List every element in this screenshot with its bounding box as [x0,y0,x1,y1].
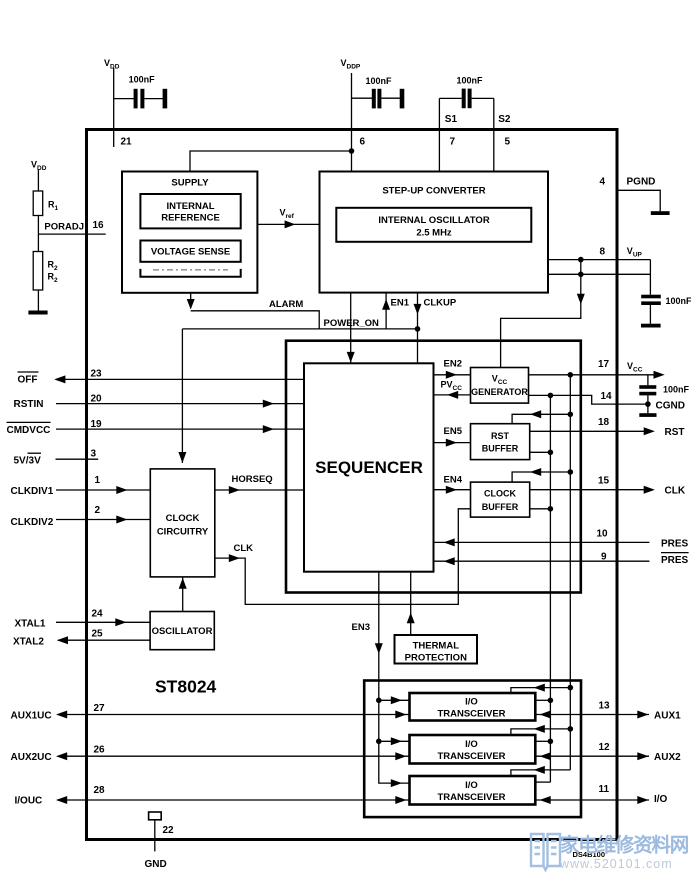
label CGND [656,400,685,411]
wire OFF output [54,375,304,383]
svg-text:28: 28 [94,785,106,796]
svg-text:RST: RST [491,431,510,441]
wire POWER_ON down to clock circuitry [178,329,186,463]
node junction rail B / RST feed [568,412,574,418]
block sequencer outer frame [286,341,581,593]
label VUP [627,246,643,259]
wire Vref supply to step-up [257,208,319,229]
label S2 [498,114,511,125]
svg-text:27: 27 [94,703,106,714]
node junction VCC rail B [568,372,574,378]
label CLKDIV2 [11,517,54,528]
svg-text:OSCILLATOR: OSCILLATOR [152,626,213,637]
svg-text:CMDVCC: CMDVCC [7,425,51,436]
svg-text:XTAL1: XTAL1 [15,618,46,629]
wire XTAL1 input [56,618,150,626]
pin 7 [450,137,456,148]
pin 17 [598,359,610,370]
wire oscillator to clock circuitry [179,577,187,612]
wire rail B vertical [569,375,571,770]
wire CLKDIV2 input [56,516,150,524]
ground PGND [651,211,670,215]
svg-text:INTERNAL: INTERNAL [166,201,214,212]
wire thermal protection to sequencer [407,572,415,635]
label I/OUC [15,796,43,807]
svg-text:PRES: PRES [661,538,689,549]
block VOLTAGE SENSE [140,241,240,262]
block I/O TRANSCEIVER 3 [410,776,536,805]
svg-text:EN1: EN1 [391,297,410,308]
svg-text:12: 12 [599,742,611,753]
wire EN4 [434,486,471,494]
wire EN2 [434,371,471,379]
pin 8 [600,247,606,258]
label 5V/3V (3V active low) [14,453,42,466]
pin 1 [95,475,101,486]
svg-text:PROTECTION: PROTECTION [405,653,467,664]
node junction rail A / T2 [548,739,554,745]
wire RSTIN input [56,400,304,408]
svg-text:23: 23 [91,369,103,380]
svg-text:8: 8 [600,247,606,258]
wire pin 4 PGND [617,190,660,211]
wire junction to step-up converter top [351,151,353,172]
svg-text:CLKDIV2: CLKDIV2 [11,517,54,528]
node junction rail A / T1 [548,698,554,704]
label CLKUP [424,297,457,308]
svg-text:INTERNAL OSCILLATOR: INTERNAL OSCILLATOR [378,215,490,226]
pin 12 [599,742,611,753]
watermark url [559,857,673,871]
wire R1 to node PORADJ [37,216,39,252]
label RST (right) [665,427,685,438]
node junction VUP lower [578,272,584,278]
svg-text:XTAL2: XTAL2 [13,636,44,647]
wire PRES-bar input [434,557,650,565]
label HORSEQ [232,474,273,485]
net VDDP (top middle) [341,58,361,71]
svg-text:SUPPLY: SUPPLY [171,178,209,189]
svg-text:5: 5 [505,137,511,148]
label VCC (right) [627,361,643,374]
wire VDDP to pin 6 and junction [351,73,353,151]
wire ALARM from supply bottom [187,293,195,310]
wire VDD to pin 21 [113,68,115,147]
svg-text:RST: RST [665,427,685,438]
svg-text:22: 22 [163,825,175,836]
label PVCC [441,379,463,392]
ground VUP cap [641,324,661,328]
pin 13 [599,701,611,712]
block SEQUENCER [304,363,434,571]
pin 2 [95,505,101,516]
label CMDVCC (active low) [7,422,51,435]
pin 20 [91,394,103,405]
svg-text:CLKUP: CLKUP [424,297,457,308]
svg-text:6: 6 [360,137,366,148]
wire AUX2 bidirectional [535,752,649,760]
svg-text:24: 24 [92,609,104,620]
label ALARM [269,299,303,310]
wire pin 22 GND [154,820,156,852]
wire supply top riser to VDDP junction [190,151,352,172]
node PORADJ pin 16 [38,220,105,234]
svg-text:100nF: 100nF [666,296,691,306]
svg-text:20: 20 [91,394,103,405]
wire EN5 [434,439,471,447]
label CLK (internal) [234,543,254,554]
wire S2 pin 5 [493,98,495,171]
wire S1 pin 7 [438,98,440,171]
resistor R2 [33,252,43,291]
label RSTIN [14,399,44,410]
wire cap C1 left lead [114,98,134,100]
svg-text:I/O: I/O [465,739,478,750]
svg-text:TRANSCEIVER: TRANSCEIVER [437,792,505,803]
wire EN3 to transceiver 1 [379,696,410,704]
svg-text:EN3: EN3 [352,622,370,633]
wire CLOCK buffer lower output to rail A [530,508,551,510]
svg-text:I/O: I/O [654,794,668,805]
label S1 [445,114,458,125]
wire AUX2UC bidirectional [56,752,410,760]
svg-text:2: 2 [95,505,101,516]
svg-text:ALARM: ALARM [269,299,303,310]
label OFF (active low) [18,372,39,386]
wire EN3 to transceiver 2 [379,737,410,745]
svg-text:7: 7 [450,137,456,148]
wire VUP to capacitor C4 [649,260,651,295]
svg-text:STEP-UP CONVERTER: STEP-UP CONVERTER [382,186,485,197]
node junction EN3 / transceiver 2 [376,739,382,745]
svg-text:AUX1: AUX1 [654,710,681,721]
label XTAL1 [15,618,46,629]
resistor R1 [33,191,43,216]
svg-text:13: 13 [599,701,611,712]
svg-text:21: 21 [121,137,133,148]
wire CLKDIV1 input [56,486,150,494]
wire VDD to R1 [37,170,39,191]
svg-text:VOLTAGE SENSE: VOLTAGE SENSE [151,247,230,258]
block CLOCK CIRCUITRY [150,469,215,577]
svg-text:100nF: 100nF [366,76,393,86]
block SUPPLY [122,172,257,293]
svg-text:100nF: 100nF [129,75,156,85]
wire HORSEQ [215,486,304,494]
wire R2 to ground [37,290,39,311]
net VDD (top left) [104,58,120,71]
node junction rail B / CLOCK feed [568,469,574,475]
svg-text:PORADJ: PORADJ [44,221,84,232]
svg-text:TRANSCEIVER: TRANSCEIVER [437,751,505,762]
wire AUX1UC bidirectional [56,711,410,719]
block INTERNAL OSCILLATOR 2.5 MHz [336,208,531,242]
capacitor C2 100nF [366,76,405,108]
svg-text:AUX2: AUX2 [654,752,681,763]
svg-text:CLOCK: CLOCK [484,488,516,498]
wire cap C2 left lead [352,97,373,99]
svg-text:I/OUC: I/OUC [15,796,43,807]
wire CLK routing to clock buffer [215,509,471,605]
svg-text:16: 16 [93,220,105,231]
label CLK (right) [665,486,686,497]
capacitor C5 100nF (VCC) [639,385,689,414]
svg-text:SEQUENCER: SEQUENCER [315,458,423,477]
label AUX1 [654,710,681,721]
block STEP-UP CONVERTER [320,172,549,293]
svg-text:S1: S1 [445,114,458,125]
label GND [145,859,167,870]
svg-text:CLK: CLK [665,486,686,497]
label EN2 [444,359,462,370]
wire CMDVCC input [56,425,304,433]
label PRES (active low) [661,553,689,566]
svg-text:EN5: EN5 [444,426,463,437]
wire VUP lower line [548,273,650,275]
svg-text:17: 17 [598,359,610,370]
pin 15 [598,476,610,487]
net VDD (divider) [31,160,47,173]
pin 3 [91,449,97,460]
node junction VUP upper [578,257,584,263]
ground (divider) [28,311,47,315]
svg-text:RSTIN: RSTIN [14,399,44,410]
wire VCC feed transceiver 3 [511,766,570,776]
wire rail A vertical [549,395,551,782]
label EN4 [444,475,463,486]
svg-text:26: 26 [94,745,106,756]
wire step-up to sequencer top [347,293,355,364]
label figure code DS4B100 [573,850,606,859]
svg-text:OFF: OFF [18,375,38,386]
label POWER_ON [324,318,380,329]
pin 27 [94,703,106,714]
wire PRES input [434,538,650,546]
pin 25 [92,629,104,640]
wire ALARM horizontal [191,311,320,329]
svg-text:2.5 MHz: 2.5 MHz [416,228,452,239]
svg-text:EN2: EN2 [444,359,462,370]
pin 11 [599,784,610,795]
svg-text:www.520101.com: www.520101.com [559,857,673,871]
svg-text:14: 14 [601,391,613,402]
label CLKDIV1 [11,486,54,497]
node junction rail A / CLOCK out [548,506,554,512]
label ST8024 [155,677,217,697]
capacitor C4 100nF [641,295,691,324]
wire pin 18 RST output [530,427,655,435]
block RST BUFFER [471,424,530,460]
pin 23 [91,369,103,380]
node junction VDDP/supply [349,148,355,154]
svg-text:18: 18 [598,417,610,428]
capacitor C3 100nF between S1 S2 [439,76,493,109]
wire EN1 up into step-up [382,293,390,329]
wire I/O bidirectional [535,796,649,804]
pin 24 [92,609,104,620]
svg-text:100nF: 100nF [663,385,690,395]
label I/O [654,794,668,805]
wire RST buffer lower output to rail A [530,451,551,453]
svg-text:TRANSCEIVER: TRANSCEIVER [437,708,505,719]
block VCC GENERATOR [471,368,529,404]
svg-text:PRES: PRES [661,555,689,566]
svg-text:CGND: CGND [656,400,685,411]
node junction EN3 / transceiver 1 [376,698,382,704]
chip border ST8024 [87,130,618,840]
svg-text:CLK: CLK [234,543,254,554]
label R1 [48,200,59,213]
svg-text:ST8024: ST8024 [155,677,217,697]
svg-text:4: 4 [600,177,606,188]
svg-text:THERMAL: THERMAL [413,641,460,652]
svg-text:CIRCUITRY: CIRCUITRY [157,527,209,538]
wire VCC feed transceiver 2 [511,725,570,735]
block I/O TRANSCEIVER 1 [410,693,536,721]
wire VUP rail down to VCC generator [501,260,585,368]
svg-text:11: 11 [599,784,610,795]
node junction rail B / T1 feed [568,685,574,691]
wire CLKUP down to sequencer [414,293,422,364]
block faded duplicate voltage sense [140,269,240,277]
wire EN3 rail to transceiver 2 [378,700,380,741]
label PRES [661,538,689,549]
node junction rail A start [548,393,554,399]
label EN5 [444,426,463,437]
block INTERNAL REFERENCE [140,194,240,228]
watermark chinese text [560,834,689,857]
wire EN3 rail to transceiver 3 [379,741,410,787]
svg-text:REFERENCE: REFERENCE [161,213,220,224]
wire RST buffer top feed [512,410,570,423]
node junction CLKUP / POWER_ON [415,326,421,332]
wire EN3 from sequencer down [375,572,383,701]
block OSCILLATOR [150,612,214,650]
wire rail A to transceiver 1 right [535,699,550,701]
ground CGND cap [639,413,656,417]
pin 6 [360,137,366,148]
wire PVCC [434,391,471,399]
wire pin 15 CLK output [530,486,655,494]
pin 4 [600,177,606,188]
svg-text:5V/3V: 5V/3V [14,456,42,467]
svg-text:100nF: 100nF [457,76,484,86]
watermark book icon [531,834,560,870]
svg-text:15: 15 [598,476,610,487]
label R2 [48,260,59,285]
wire I/OUC bidirectional [56,796,410,804]
capacitor C1 100nF [129,75,168,109]
svg-text:GENERATOR: GENERATOR [471,387,528,397]
label AUX2UC [11,752,52,763]
pin 14 [601,391,613,402]
pin 10 [597,529,609,540]
pin 22 [163,825,175,836]
node junction rail A / RST out [548,450,554,456]
node junction CGND [645,401,651,407]
svg-text:I/O: I/O [465,780,478,791]
pin 5 [505,137,511,148]
svg-text:HORSEQ: HORSEQ [232,474,273,485]
pin 9 [601,552,607,563]
block transceivers outer frame [364,681,581,818]
svg-text:EN4: EN4 [444,475,463,486]
label PGND [627,177,656,188]
wire VUP upper line pin 8 [548,259,650,261]
svg-text:19: 19 [91,419,103,430]
wire XTAL2 output [57,636,150,644]
wire VCC cap lead [647,375,649,385]
svg-text:10: 10 [597,529,609,540]
pin 22 GND terminal box [149,812,162,820]
svg-text:I/O: I/O [465,696,478,707]
svg-text:家电维修资料网: 家电维修资料网 [560,834,689,857]
block THERMAL PROTECTION [395,635,478,664]
label EN3 [352,622,370,633]
pin 26 [94,745,106,756]
pin 18 [598,417,610,428]
svg-text:CLOCK: CLOCK [166,513,200,524]
node junction rail B / T2 feed [568,726,574,732]
svg-text:S2: S2 [498,114,511,125]
label AUX2 [654,752,681,763]
pin 28 [94,785,106,796]
wire rail A to transceiver 3 right [535,781,550,783]
wire rail A to transceiver 2 right [535,740,550,742]
wire 5V/3V stub [56,458,99,460]
pin 19 [91,419,103,430]
svg-text:PGND: PGND [627,177,656,188]
wire POWER_ON horizontal [182,328,417,330]
svg-text:AUX1UC: AUX1UC [11,710,52,721]
wire VCC feed transceiver 1 [511,684,570,693]
svg-text:CLKDIV1: CLKDIV1 [11,486,54,497]
svg-text:BUFFER: BUFFER [482,443,519,453]
pin 21 [121,137,133,148]
svg-text:GND: GND [145,859,167,870]
svg-text:25: 25 [92,629,104,640]
block CLOCK BUFFER [471,482,530,517]
wire AUX1 bidirectional [535,711,649,719]
block I/O TRANSCEIVER 2 [410,735,536,764]
svg-text:1: 1 [95,475,101,486]
svg-text:AUX2UC: AUX2UC [11,752,52,763]
svg-text:3: 3 [91,449,97,460]
label EN1 [391,297,410,308]
label XTAL2 [13,636,44,647]
svg-text:BUFFER: BUFFER [482,502,519,512]
wire pin 14 CGND [529,395,648,404]
wire CLOCK buffer top feed [512,468,570,482]
label AUX1UC [11,710,52,721]
wire pin 17 VCC output [529,371,665,379]
